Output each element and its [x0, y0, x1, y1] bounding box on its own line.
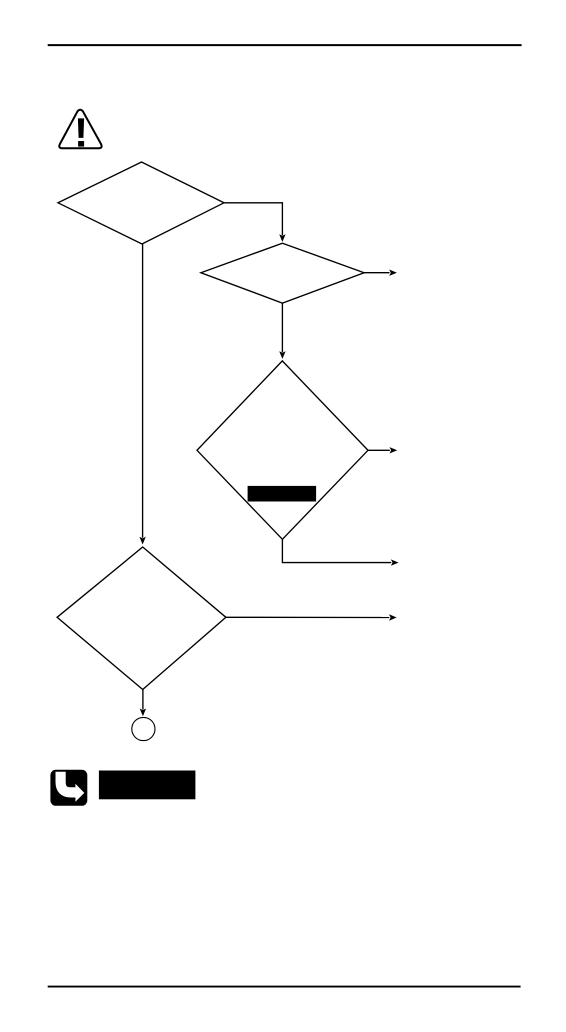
note icon rounded square: [50, 770, 87, 806]
long wire D1 bottom to D4 top: [142, 244, 144, 538]
arrowhead into D2 top: [279, 234, 285, 242]
arrow from D2 right exit: [364, 272, 389, 274]
decision diamond D3: [197, 361, 368, 539]
wire D1 right to D2 top (elbow): [224, 203, 282, 235]
decision diamond D2: [201, 243, 364, 303]
arrowhead into terminator: [140, 709, 146, 717]
header rule: [48, 44, 522, 46]
arrow from D3 right exit: [368, 449, 390, 451]
arrowhead into D4 top: [139, 537, 145, 545]
warning icon exclamation bar: [78, 118, 84, 137]
arrow from D4 right exit: [226, 616, 389, 618]
decision diamond D4: [57, 547, 226, 690]
wire D4 bottom to terminator: [142, 690, 144, 710]
wire D2 bottom to D3 top: [281, 303, 283, 352]
terminator circle: [132, 717, 155, 740]
black redaction bar inside D3: [248, 486, 317, 502]
wire D3 bottom elbow to right arrow: [282, 539, 391, 562]
note icon white arrow: [61, 772, 76, 793]
footer rule: [48, 986, 521, 988]
warning icon exclamation dot: [78, 141, 84, 147]
decision diamond D1: [58, 162, 224, 244]
warning icon triangle: [59, 110, 101, 149]
black redaction bar beside note icon: [99, 771, 195, 800]
arrowhead into D3 top: [279, 351, 285, 359]
